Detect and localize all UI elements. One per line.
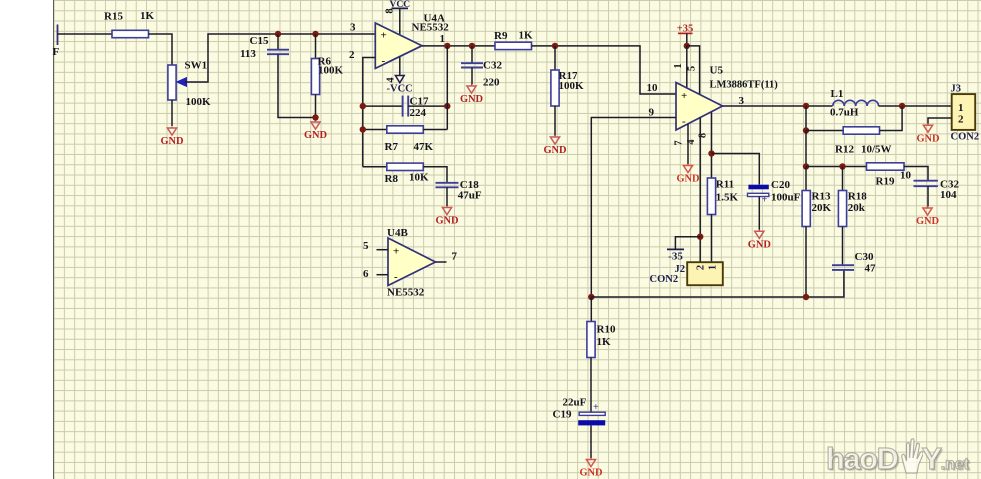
svg-text:224: 224 (410, 107, 427, 119)
wire R17 bottom stem (554, 106, 556, 136)
svg-text:LM3886TF(11): LM3886TF(11) (710, 80, 779, 91)
wire F to R15 (58, 33, 113, 35)
wire SW1 wiper to input line (185, 34, 375, 82)
svg-text:2: 2 (349, 49, 355, 61)
svg-text:1K: 1K (519, 30, 534, 42)
wire feedback bottom rail (591, 270, 844, 297)
node input junction at C15 (275, 31, 281, 37)
resistor R10 (587, 322, 595, 358)
svg-text:R13: R13 (812, 191, 831, 203)
svg-text:-: - (394, 271, 398, 283)
capacitor C15 (267, 50, 289, 55)
wire R6 top stem (315, 34, 317, 59)
svg-text:R7: R7 (385, 141, 399, 153)
svg-text:2: 2 (958, 114, 964, 126)
svg-text:F: F (53, 46, 60, 58)
svg-text:C32: C32 (483, 60, 502, 72)
svg-text:22uF: 22uF (563, 397, 587, 409)
svg-text:R15: R15 (104, 11, 123, 23)
capacitor C20 negative plate (748, 193, 769, 196)
resistor R11 (707, 178, 715, 215)
svg-text:GND: GND (460, 94, 483, 105)
wire SW1 bottom to ground (171, 100, 173, 126)
inductor L1 (833, 100, 879, 106)
svg-text:-VCC: -VCC (387, 84, 413, 95)
wire R10 bottom to C19 (590, 358, 592, 413)
svg-text:L1: L1 (831, 88, 844, 100)
svg-text:-35: -35 (668, 251, 683, 263)
capacitor C32 104 (914, 181, 938, 187)
wire U5 pin 1 supply (686, 46, 688, 88)
ground below SW1 (160, 127, 183, 148)
connector J3 CON2 box (952, 94, 976, 130)
svg-text:R11: R11 (716, 179, 734, 191)
wire R15 to SW1 top (149, 34, 173, 65)
node input junction at R6 (312, 31, 318, 37)
ground below C20 (748, 230, 771, 251)
wire R6 bottom stem (315, 95, 317, 118)
wire R12 left (806, 130, 843, 132)
resistor R15 (112, 30, 149, 37)
wire R7 left (363, 129, 387, 131)
svg-text:U4B: U4B (387, 227, 408, 239)
svg-text:7: 7 (452, 251, 458, 263)
svg-text:6: 6 (363, 268, 369, 280)
wire U5 output (723, 105, 833, 107)
wire R13 top stem (805, 167, 807, 191)
wire U5 pin 7 to ground (687, 124, 689, 164)
svg-text:20K: 20K (812, 202, 832, 214)
svg-text:10/5W: 10/5W (861, 144, 892, 156)
node output at C17 (444, 103, 450, 109)
svg-text:7: 7 (674, 140, 685, 145)
wire U4A pin 4 stem (399, 57, 401, 76)
svg-text:GND: GND (304, 130, 327, 141)
wire U5 pin 5 supply (687, 46, 700, 95)
svg-text:100uF: 100uF (771, 192, 801, 204)
node output junction at L1 (803, 103, 809, 109)
power symbol +35 bar (678, 32, 693, 34)
svg-text:GND: GND (579, 468, 602, 479)
svg-text:100K: 100K (186, 96, 212, 108)
svg-text:3: 3 (350, 22, 356, 34)
wire R18 top stem (842, 167, 844, 191)
node feedback junction at R10 (588, 294, 594, 300)
ground below C32 220 (460, 85, 483, 106)
svg-text:R9: R9 (494, 30, 508, 42)
wire U4A output (422, 45, 495, 47)
svg-text:NE5532: NE5532 (387, 287, 425, 299)
wire C19 bottom stem (590, 425, 592, 458)
svg-text:C17: C17 (410, 95, 429, 107)
svg-text:220: 220 (483, 77, 500, 89)
wire U5 pin 9 feedback (591, 118, 676, 298)
power symbol -35 bar (667, 248, 684, 250)
power symbol -VCC triangle (395, 76, 404, 83)
ground below R6 C15 (304, 121, 327, 142)
wire R7 right (423, 129, 447, 131)
resistor R19 (867, 163, 905, 170)
svg-text:47: 47 (865, 263, 877, 275)
svg-text:3: 3 (739, 95, 745, 107)
svg-text:1: 1 (958, 102, 964, 114)
wire U5 pin 4 to J2 pin 2 (699, 118, 701, 262)
wire C32a top stem (471, 46, 473, 63)
resistor R7 (387, 126, 424, 133)
svg-text:SW1: SW1 (185, 60, 208, 72)
svg-text:1K: 1K (597, 336, 612, 348)
svg-text:9: 9 (649, 107, 655, 119)
op-amp U5 LM3886 triangle (676, 83, 723, 131)
svg-text:CON2: CON2 (951, 132, 980, 143)
node mute junction at pin 8 (708, 150, 714, 156)
svg-text:1K: 1K (140, 10, 155, 22)
svg-text:GND: GND (543, 145, 566, 156)
wire R8 right to C18 (423, 167, 447, 183)
svg-text:C20: C20 (771, 179, 790, 191)
wire -35 branch (675, 237, 700, 250)
node ground junction below R6 (312, 114, 318, 120)
wire output vertical to R7 (446, 46, 448, 130)
wire R9 to U5 pin 10 (532, 46, 677, 94)
svg-text:GND: GND (916, 133, 939, 144)
svg-text:0.7uH: 0.7uH (830, 107, 859, 119)
wire R13 bottom to rail (805, 227, 807, 298)
svg-text:-: - (382, 55, 386, 67)
wire U4B pin 6 stub (377, 274, 389, 276)
node inverting input at R7 (360, 126, 366, 132)
svg-text:GND: GND (160, 136, 183, 147)
svg-text:NE5532: NE5532 (412, 22, 450, 34)
resistor SW1 potentiometer body (168, 65, 176, 100)
wire C20 bottom stem (758, 197, 760, 230)
wire J3 pin 2 to ground (928, 118, 952, 124)
capacitor C19 negative plate (579, 412, 605, 415)
svg-text:2: 2 (696, 265, 707, 270)
resistor R8 (387, 163, 424, 170)
node junction R13 at rail (803, 294, 809, 300)
wire U5 pin 8 to R11 and J2 pin 1 (711, 113, 713, 179)
wire R17 top stem (554, 46, 556, 70)
resistor R17 (551, 70, 559, 106)
wire U4A pin 2 input (363, 58, 376, 167)
ground below C19 (579, 458, 602, 479)
svg-text:5: 5 (363, 240, 369, 252)
wire R12 right (880, 106, 903, 131)
svg-text:5: 5 (687, 66, 698, 71)
wire R18 bottom to C30 (842, 227, 844, 266)
svg-text:R12: R12 (835, 144, 854, 156)
svg-text:8: 8 (385, 8, 396, 13)
svg-text:20k: 20k (848, 202, 866, 214)
node junction at R17 (552, 43, 558, 49)
svg-text:1: 1 (673, 63, 684, 68)
op-amp U5 plus minus marks (681, 90, 687, 128)
svg-text:104: 104 (940, 189, 957, 201)
svg-text:47uF: 47uF (458, 190, 482, 202)
svg-text:1: 1 (440, 33, 446, 45)
node junction at C32a (469, 43, 475, 49)
node junction after L1 (899, 103, 905, 109)
svg-text:4: 4 (386, 77, 397, 83)
capacitor C17 (403, 96, 409, 117)
svg-text:R8: R8 (385, 173, 399, 185)
svg-text:J3: J3 (951, 84, 962, 95)
wire C32a bottom stem (471, 68, 473, 85)
svg-text:C15: C15 (250, 35, 269, 47)
svg-text:100K: 100K (318, 65, 344, 77)
node junction at R18 top (839, 163, 845, 169)
node junction at R12 left (803, 127, 809, 133)
svg-text:100K: 100K (559, 80, 585, 92)
node +35 supply junction (684, 43, 690, 49)
svg-text:+: + (681, 90, 687, 102)
capacitor C18 (436, 183, 459, 188)
op-amp U4A plus minus marks (381, 30, 387, 68)
node junction zobel row left (803, 163, 809, 169)
svg-text:+: + (393, 246, 399, 258)
power symbol VCC bar (392, 7, 409, 9)
svg-text:CON2: CON2 (650, 274, 679, 285)
wire R10 top stem (590, 297, 592, 322)
potentiometer SW1 wiper arrow (177, 78, 187, 87)
resistor R18 (838, 191, 846, 227)
svg-text:R10: R10 (597, 324, 616, 336)
svg-text:GND: GND (435, 216, 458, 227)
ground at J3 pin 2 (916, 124, 939, 145)
svg-text:1: 1 (708, 265, 719, 270)
svg-text:GND: GND (748, 239, 771, 250)
resistor R13 (802, 191, 810, 227)
svg-text:47K: 47K (414, 141, 434, 153)
ground below R17 (543, 136, 566, 157)
svg-text:R18: R18 (848, 191, 867, 203)
ground below C18 (435, 206, 458, 227)
wire output node down to zobel row (805, 131, 807, 167)
svg-text:GND: GND (916, 216, 939, 227)
svg-text:10: 10 (647, 82, 659, 94)
wire C32b bottom stem (927, 186, 929, 206)
wire mute node to C20 (712, 154, 760, 185)
svg-text:10: 10 (900, 170, 912, 182)
capacitor C20 positive plate (748, 185, 768, 190)
node -35 junction on pin 4 line (697, 234, 703, 240)
svg-text:8: 8 (698, 133, 709, 138)
svg-text:+: + (381, 30, 387, 42)
resistor R12 (843, 127, 879, 134)
ground below C32 104 (916, 207, 939, 228)
wire C17 right (408, 105, 447, 107)
svg-text:-: - (682, 116, 686, 128)
resistor R9 (495, 42, 532, 49)
wire zobel row horizontal (806, 166, 867, 168)
svg-text:+: + (593, 402, 599, 413)
capacitor C32 220 (461, 63, 483, 67)
op-amp U4B plus minus marks (393, 246, 399, 284)
svg-text:+: + (762, 195, 768, 206)
node inverting input at C17 (360, 103, 366, 109)
wire R19 right to C32b (904, 167, 928, 181)
svg-text:10K: 10K (409, 172, 429, 184)
wire R11 bottom to J2 pin 1 (711, 215, 713, 263)
svg-text:C30: C30 (855, 251, 874, 263)
svg-text:113: 113 (240, 48, 256, 60)
wire C17 left (363, 105, 403, 107)
wire output node down to R12 (805, 106, 807, 131)
wire C15 bottom to ground rail (278, 54, 316, 117)
wire L1 to J3 (879, 105, 952, 107)
node U4A output junction (444, 43, 450, 49)
svg-text:1.5K: 1.5K (716, 192, 739, 204)
resistor R6 (311, 59, 319, 95)
svg-text:C19: C19 (553, 409, 572, 421)
connector J2 CON2 box (687, 262, 723, 285)
ground below U5 pin 7 (676, 164, 699, 185)
svg-text:U5: U5 (710, 65, 724, 77)
capacitor C19 positive plate (578, 420, 605, 425)
wire U4B pin 5 stub (377, 249, 389, 251)
op-amp U4B triangle (388, 238, 436, 286)
wire U4B pin 7 stub (436, 261, 447, 263)
wire +35 stem (686, 33, 688, 46)
svg-text:GND: GND (676, 174, 699, 185)
wire C18 bottom stem (446, 187, 448, 206)
wire C15 top stem (277, 34, 279, 50)
watermark haoDIY.net logo (826, 438, 969, 477)
op-amp U4A triangle (375, 23, 422, 68)
capacitor C30 (832, 265, 854, 270)
port F input bar (57, 25, 59, 46)
wire R8 left (363, 166, 387, 168)
wire VCC stem to U4A pin 8 (399, 8, 401, 35)
svg-text:R19: R19 (876, 176, 895, 188)
